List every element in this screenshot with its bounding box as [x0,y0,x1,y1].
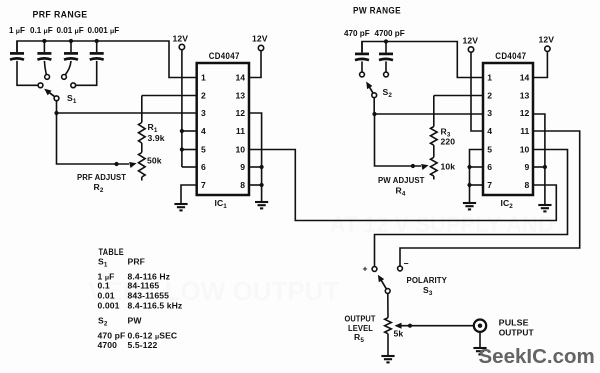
wire: 12V rail to IC1 pins 4,5,6 [182,50,197,167]
svg-text:3.9k: 3.9k [148,133,165,143]
wire: R5 wiper to pulse output jack [396,325,475,327]
svg-text:12V: 12V [252,34,268,44]
op IC2 CD4047 box [483,51,533,210]
capacitor C 4700pF [379,42,393,72]
svg-text:14: 14 [235,73,245,83]
resistor R1 3.9k [139,96,146,144]
svg-text:SeekIC.com: SeekIC.com [479,345,595,368]
capacitor value labels PW [344,29,405,38]
svg-text:220: 220 [441,137,456,147]
capacitor C 0.1uF [37,41,51,60]
ground IC1 left [174,204,187,210]
svg-text:PRF RANGE: PRF RANGE [33,10,88,20]
ground IC2 left [463,203,476,209]
node: pins 9,8 on ground rail [260,165,264,169]
svg-text:−: − [404,259,409,269]
svg-text:12V: 12V [463,36,479,46]
svg-text:1 μF: 1 μF [9,26,25,35]
svg-text:PW RANGE: PW RANGE [353,6,401,16]
wire: IC1 pin 7 to ground [181,185,197,204]
wire: S1 wiper to IC1 pin 3 [57,101,197,113]
svg-text:13: 13 [235,91,245,101]
svg-text:PRF ADJUST: PRF ADJUST [77,172,127,182]
svg-text:5: 5 [201,145,206,155]
svg-text:4: 4 [487,126,492,136]
svg-text:14: 14 [520,73,530,83]
node: pin 9 on ground rail [543,165,547,169]
svg-text:5.5-122: 5.5-122 [128,340,158,350]
table of ranges [98,247,183,350]
svg-text:0.001 μF: 0.001 μF [88,26,120,35]
svg-text:11: 11 [520,126,529,136]
switch S1 rotary selector [38,75,76,101]
wire: PW capacitor top bus to IC2 pin 1 [362,42,483,78]
node: output wire dot [408,324,412,328]
wire: down to R2 wiper [57,113,130,164]
svg-text:PW: PW [128,316,143,326]
svg-text:9: 9 [525,162,530,172]
svg-text:OUTPUT: OUTPUT [499,328,535,338]
svg-text:2: 2 [201,91,206,101]
svg-text:PULSE: PULSE [499,318,529,328]
potentiometer R5 wiper arrow [395,323,402,329]
svg-text:+: + [363,264,368,274]
svg-text:0.1 μF: 0.1 μF [30,26,53,35]
capacitor C 1uF [10,41,24,60]
potentiometer R5 5k output level [385,318,392,356]
connector J1 pulse output jack [474,320,486,349]
ground IC1 right [255,202,268,208]
faint scan ghost text [88,212,554,306]
svg-text:VERY LOW OUTPUT: VERY LOW OUTPUT [88,276,339,306]
node: pins 4,5 on 12V rail [180,129,184,133]
wire: IC2 pin 12 and 9 to ground [533,114,545,205]
svg-text:8.4-116.5 kHz: 8.4-116.5 kHz [128,300,183,310]
svg-text:8: 8 [240,180,245,190]
svg-text:11: 11 [236,126,245,136]
ground R5 [381,356,394,362]
capacitor C 0.01uF [64,41,78,60]
svg-text:4700: 4700 [98,340,118,350]
potentiometer R2 wiper arrow [129,162,137,168]
wire: IC2 pin 11 Qbar to polarity - [400,131,580,266]
svg-text:TABLE: TABLE [99,247,125,257]
svg-text:7: 7 [201,180,206,190]
svg-text:10k: 10k [441,162,456,172]
svg-text:50k: 50k [147,156,162,166]
wire: IC2 pin 14 to 12V [533,52,547,78]
svg-text:12V: 12V [173,34,189,44]
svg-text:3: 3 [487,108,492,118]
svg-text:0.1: 0.1 [98,281,110,291]
wire: down to R4 wiper [375,114,422,166]
svg-text:1: 1 [201,73,206,83]
svg-text:470 pF: 470 pF [344,29,370,38]
svg-text:12: 12 [235,108,245,118]
svg-text:3: 3 [201,108,206,118]
svg-text:4: 4 [201,126,206,136]
svg-text:0.6-12 μSEC: 0.6-12 μSEC [128,330,178,340]
wire: IC2 pin 10 Q to polarity + [375,150,568,267]
svg-text:1: 1 [487,73,492,83]
svg-text:0.001: 0.001 [98,300,120,310]
wire: 12V to IC2 pin 4 [471,52,483,131]
wire: IC1 pin 12 to ground rail [249,113,262,202]
switch S3 polarity [372,266,402,293]
svg-text:6: 6 [487,162,492,172]
wire: IC1 pin 14 to 12V [249,51,261,78]
node: bus junction [384,39,388,43]
svg-text:CD4047: CD4047 [209,51,240,61]
svg-text:PRF: PRF [128,257,146,267]
potentiometer R4 10k [431,145,438,179]
node: R4 wiper wire dot [411,164,415,168]
wire: S3 wiper to R5 [387,293,389,317]
svg-text:7: 7 [487,180,492,190]
capacitor C 0.001uF [90,41,104,60]
svg-text:12: 12 [520,108,530,118]
svg-text:12V: 12V [539,35,555,45]
svg-text:0.01: 0.01 [98,290,115,300]
svg-text:4700 pF: 4700 pF [375,29,405,38]
wire: capacitor top bus [17,41,197,78]
svg-text:10: 10 [235,145,245,155]
svg-text:LEVEL: LEVEL [348,323,373,333]
node: S2 junction [372,112,376,116]
svg-text:2: 2 [487,91,492,101]
ground IC2 right [538,205,551,211]
switch S2 [360,72,389,98]
node: R2 wiper wire dot [114,162,118,166]
svg-text:10: 10 [520,145,530,155]
resistor R3 220 [431,96,438,146]
svg-text:470 pF: 470 pF [98,330,126,340]
svg-text:8: 8 [525,180,530,190]
svg-text:13: 13 [520,91,530,101]
svg-text:PW ADJUST: PW ADJUST [378,175,425,185]
wire: IC2 pin 2 to R3 [434,95,483,97]
wire: IC2 pins 5,6,7 to ground [470,150,484,204]
svg-text:CD4047: CD4047 [495,51,526,61]
wire: IC1 pin 2 to R1 [142,95,197,97]
svg-text:843-11655: 843-11655 [128,290,170,300]
node: bus junctions [42,39,46,43]
svg-text:AT 12 V SUPPLY AND: AT 12 V SUPPLY AND [330,212,554,237]
svg-text:5: 5 [487,145,492,155]
potentiometer R2 50k [139,143,146,181]
svg-text:6: 6 [201,162,206,172]
node: wiper junction [54,111,58,115]
ground jack [473,348,486,354]
svg-text:POLARITY: POLARITY [407,275,448,285]
wire: IC1 pin 10 output to IC2 pin 8 [249,150,556,221]
svg-text:0.01 μF: 0.01 μF [57,26,84,35]
svg-text:5k: 5k [394,329,404,339]
capacitor value labels [9,26,119,35]
node: pins 6,7 on ground rail [467,165,471,169]
svg-text:9: 9 [240,162,245,172]
potentiometer R4 wiper arrow [421,164,429,170]
svg-text:84-1165: 84-1165 [128,281,160,291]
op IC1 CD4047 box [197,51,249,210]
capacitor C 470pF [355,42,369,72]
wire: S2 wiper to IC2 pin 3 [374,98,483,114]
